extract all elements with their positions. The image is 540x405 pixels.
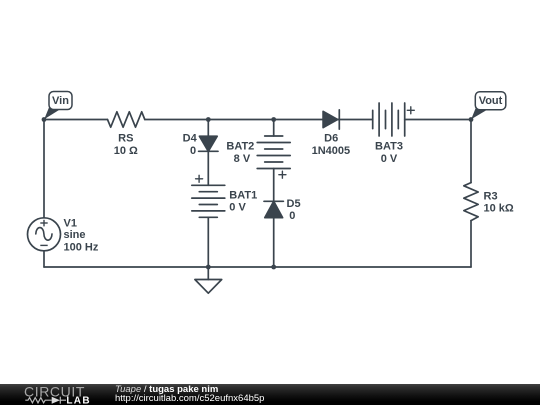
svg-text:LAB: LAB (66, 396, 90, 405)
junction node Vin (42, 117, 47, 122)
junction node D4 branch top (206, 117, 211, 122)
svg-text:8 V: 8 V (234, 153, 251, 165)
svg-text:10 kΩ: 10 kΩ (484, 203, 514, 215)
wire: V1 to bottom rail (43, 251, 45, 267)
wire: D4 to BAT1 (207, 151, 209, 185)
wire: D6 cathode to BAT3 (339, 119, 372, 121)
wire left rail: Vin node down to V1 (43, 120, 45, 218)
svg-text:1N4005: 1N4005 (312, 145, 351, 157)
svg-text:RS: RS (118, 133, 133, 145)
wire top rail: D4 node to BAT2 node (208, 119, 273, 121)
wire top rail: RS to D4 branch node (145, 119, 209, 121)
junction node ground (206, 265, 211, 270)
svg-text:V1: V1 (64, 217, 77, 229)
wire: D5 to bottom rail (273, 218, 275, 267)
resistor RS (108, 112, 145, 127)
wire top rail: BAT2 node to D6 anode (274, 119, 323, 121)
svg-text:D4: D4 (183, 133, 198, 145)
CircuitLab logo (0, 384, 110, 405)
footer bar (0, 384, 540, 405)
diode D4 (199, 136, 218, 151)
svg-text:Vout: Vout (479, 95, 503, 107)
wire top rail: Vin node to RS (44, 119, 108, 121)
junction node Vout (469, 117, 474, 122)
voltage source V1 (28, 218, 61, 251)
diode D5 (264, 201, 283, 217)
wire: BAT3 to Vout node (405, 119, 471, 121)
svg-text:0: 0 (289, 210, 295, 222)
svg-text:100 Hz: 100 Hz (64, 242, 99, 254)
svg-text:BAT2: BAT2 (226, 141, 254, 153)
svg-text:R3: R3 (484, 191, 498, 203)
svg-text:0 V: 0 V (381, 153, 398, 165)
svg-text:10 Ω: 10 Ω (114, 145, 138, 157)
junction node D5 branch bottom (271, 265, 276, 270)
svg-text:BAT1: BAT1 (229, 190, 257, 202)
wire: BAT2 to D5 (273, 169, 275, 202)
wire: D4 branch top (207, 120, 209, 137)
wire bottom rail (44, 266, 471, 268)
wire right rail: R3 to bottom rail (470, 221, 472, 267)
battery BAT1 (192, 175, 225, 217)
wire right rail: Vout node down to R3 (470, 120, 472, 183)
footer url text (115, 394, 264, 404)
svg-text:D6: D6 (324, 133, 338, 145)
svg-text:D5: D5 (287, 198, 301, 210)
wire: BAT1 to bottom rail (207, 217, 209, 267)
ground (195, 267, 222, 293)
footer title text (115, 385, 218, 395)
resistor R3 (464, 183, 478, 221)
battery BAT2 (257, 136, 290, 178)
svg-text:0 V: 0 V (229, 201, 246, 213)
svg-text:Vin: Vin (52, 95, 69, 107)
net label flag Vout (471, 92, 506, 120)
junction node BAT2 branch top (271, 117, 276, 122)
wire: BAT2 branch top (273, 120, 275, 137)
svg-text:sine: sine (64, 229, 86, 241)
svg-text:0: 0 (190, 145, 196, 157)
svg-text:BAT3: BAT3 (375, 140, 403, 152)
net label flag Vin (44, 92, 72, 120)
battery BAT3 (373, 103, 415, 136)
diode D6 (323, 110, 339, 129)
